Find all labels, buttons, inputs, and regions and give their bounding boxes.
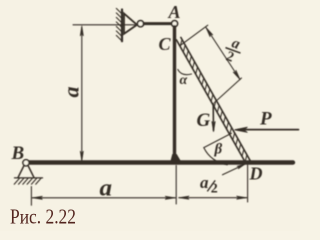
pin bracket triangle at wall	[124, 14, 137, 34]
dimension a/2 along strut: arrowheads	[206, 28, 213, 37]
svg-text:a: a	[58, 87, 83, 98]
support triangle at B	[18, 166, 34, 178]
angle beta arc	[204, 148, 228, 165]
ground line at B	[15, 177, 43, 179]
dimension a/2 along strut: dimension line	[206, 28, 240, 80]
dimension a (vertical): dimension line	[81, 28, 83, 160]
svg-text:a: a	[200, 173, 209, 192]
angle alpha arc at C	[178, 70, 192, 75]
post foot fillet at beam	[170, 155, 181, 164]
link rod from wall pin to A	[144, 22, 172, 25]
pin at wall bracket	[137, 21, 143, 27]
strut CD: hatching	[180, 40, 247, 162]
extension line below D	[247, 165, 249, 202]
svg-text:a: a	[100, 176, 113, 202]
svg-text:Рис. 2.22: Рис. 2.22	[10, 204, 76, 228]
svg-text:2: 2	[211, 182, 218, 197]
pin B	[23, 160, 29, 166]
pin A	[172, 21, 178, 27]
force P arrow	[238, 129, 299, 131]
beam B-D	[27, 160, 293, 164]
svg-text:β: β	[214, 142, 223, 158]
svg-text:A: A	[168, 2, 181, 22]
dimension a (vertical): top extension line	[73, 24, 138, 26]
angle beta tick line (perpendicular to strut, from P tip)	[204, 133, 232, 147]
dimension a/2 (bottom): dimension line	[179, 197, 247, 199]
strut CD: edges	[177, 40, 247, 164]
svg-text:P: P	[259, 109, 272, 130]
dimension a/2 (bottom): arrowheads	[179, 196, 189, 199]
svg-text:C: C	[159, 34, 172, 54]
label a/2 (diagonal fraction)	[220, 34, 245, 68]
wall support hatching	[121, 10, 123, 42]
svg-text:D: D	[249, 163, 263, 183]
dimension a (bottom): left extension line	[30, 187, 32, 206]
angle beta leader line to D	[223, 164, 245, 175]
svg-text:α: α	[180, 73, 188, 88]
dimension a/2 along strut: extension line at C	[180, 25, 208, 46]
svg-text:G: G	[197, 110, 211, 131]
post extension line below beam	[175, 166, 177, 205]
weight force G arrow	[212, 104, 214, 131]
dimension a/2 along strut: extension line at G	[215, 78, 242, 103]
dimension a (vertical): arrowheads	[80, 26, 83, 36]
dimension a (bottom): arrowheads	[32, 196, 42, 199]
ground hatching at B	[14, 178, 41, 184]
svg-text:B: B	[11, 143, 25, 164]
vertical post A-C-beam	[173, 27, 176, 160]
dimension a (bottom): dimension line	[32, 197, 175, 199]
